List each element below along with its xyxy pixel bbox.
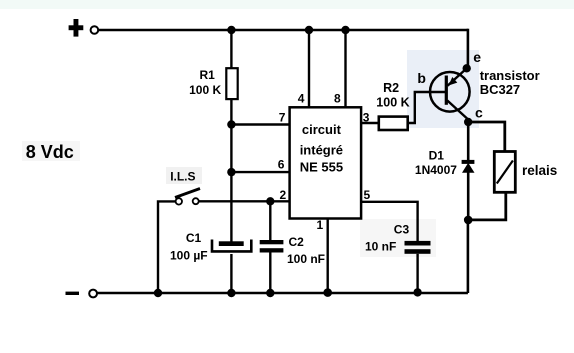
wire C2 top [269, 201, 271, 240]
svg-text:b: b [417, 70, 426, 86]
transistor Q1 BC327 [430, 69, 470, 124]
svg-text:10 nF: 10 nF [365, 240, 396, 254]
svg-text:c: c [475, 105, 483, 121]
svg-text:8 Vdc: 8 Vdc [26, 142, 74, 162]
svg-text:1N4007: 1N4007 [415, 163, 457, 177]
svg-text:8: 8 [334, 92, 341, 106]
wire collector to relay top [468, 122, 505, 152]
node emitter [463, 64, 471, 72]
svg-text:transistor: transistor [480, 68, 540, 83]
svg-text:I.L.S: I.L.S [170, 170, 195, 184]
wire R1 top [230, 30, 232, 69]
capacitor C2 100nF [260, 235, 325, 266]
terminal - (negative supply) [66, 290, 98, 298]
node bottom / C1 [227, 289, 235, 297]
svg-text:100 nF: 100 nF [287, 252, 325, 266]
svg-text:circuit: circuit [302, 122, 342, 137]
wire bottom rail [97, 292, 468, 295]
svg-text:e: e [473, 49, 481, 65]
wire R2 to transistor base [408, 92, 446, 123]
wire top rail [98, 29, 468, 32]
svg-text:6: 6 [278, 157, 285, 171]
svg-text:2: 2 [280, 188, 287, 202]
svg-text:100 K: 100 K [376, 96, 409, 110]
node pin 2 / C2 junction [266, 197, 274, 205]
svg-text:1: 1 [317, 218, 324, 232]
svg-text:R1: R1 [200, 68, 216, 82]
node bottom / C3 [413, 288, 421, 296]
node top rail / pin 4 [305, 26, 313, 34]
wire diode bottom [467, 172, 470, 220]
wire pin 7 [231, 123, 289, 125]
node top rail / pin 8 [341, 26, 349, 34]
node bottom / switch leg [154, 289, 162, 297]
wire pin 1 drop [327, 219, 329, 294]
svg-text:C1: C1 [186, 231, 202, 245]
wire pin 6 [231, 171, 289, 173]
node collector junction [464, 118, 472, 126]
svg-text:100 K: 100 K [189, 83, 221, 97]
wire left column R1 to C1 [230, 99, 232, 242]
wire pin 5 to C3 [361, 202, 418, 241]
wire bottom riser [467, 220, 470, 293]
wire C3 bottom [416, 254, 418, 293]
node pin 7 junction [227, 120, 235, 128]
node pin 6 junction [227, 168, 235, 176]
terminal + (positive supply) [69, 19, 99, 37]
svg-text:BC327: BC327 [480, 82, 520, 97]
op-amp/timer IC U1 NE555 [290, 107, 362, 218]
resistor R1 [189, 68, 238, 99]
node diode/relay junction [464, 216, 473, 225]
wire C2 bottom [269, 252, 271, 293]
svg-text:relais: relais [522, 163, 557, 178]
label transistor BC327 [480, 68, 540, 97]
wire pin 8 drop [344, 30, 346, 107]
capacitor C1 100uF electrolytic [170, 231, 251, 262]
switch I.L.S (reed switch) [170, 170, 200, 205]
wire pin 2 from switch [199, 200, 290, 202]
svg-text:4: 4 [298, 92, 305, 106]
node bottom / C2 [266, 289, 274, 297]
wire C1 bottom [230, 254, 232, 293]
wire diode top [467, 122, 470, 160]
wire relay bottom [468, 192, 506, 220]
diode D1 1N4007 [415, 148, 475, 177]
relay coil [494, 152, 557, 193]
svg-text:100 µF: 100 µF [170, 248, 208, 262]
svg-text:NE 555: NE 555 [300, 159, 343, 174]
svg-text:C3: C3 [394, 222, 410, 236]
wire pin 4 drop [308, 30, 310, 107]
wire emitter drop from top rail [467, 29, 470, 69]
svg-text:7: 7 [279, 110, 286, 124]
resistor R2 [376, 81, 409, 130]
svg-text:5: 5 [364, 188, 371, 202]
node bottom / pin 1 [323, 288, 332, 297]
svg-text:R2: R2 [383, 81, 399, 95]
svg-text:intégré: intégré [300, 142, 343, 157]
wire switch left leg to bottom rail [158, 201, 176, 293]
capacitor C3 10nF [365, 222, 431, 253]
svg-text:D1: D1 [429, 148, 445, 162]
node top rail / R1 [227, 26, 235, 34]
svg-text:C2: C2 [289, 235, 305, 249]
wire pin 3 [361, 122, 379, 124]
